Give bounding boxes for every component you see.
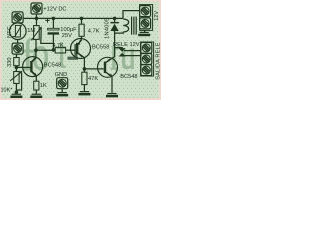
- wire: Q1 collector riser: [32, 50, 36, 61]
- junction node A cap branch: [52, 48, 56, 52]
- wire: NTC bottom to T3: [17, 39, 19, 43]
- wire: 330 to node B: [15, 66, 17, 72]
- pink page border: [0, 0, 161, 1]
- ground (trimmer): [10, 94, 22, 98]
- terminal block 12V (top right): [140, 5, 153, 31]
- svg-text:SALIDA RELE: SALIDA RELE: [156, 42, 161, 80]
- svg-text:NTC: NTC: [7, 26, 13, 38]
- svg-text:1N4005: 1N4005: [104, 17, 110, 39]
- resistor R2 330: [14, 58, 19, 66]
- svg-text:4.7K: 4.7K: [88, 28, 100, 34]
- watermark letter t: [60, 42, 66, 68]
- resistor R4 1K: [34, 81, 39, 90]
- terminal GND: [57, 78, 68, 89]
- wire: pot bottom to node A: [35, 40, 37, 51]
- ground (1K): [30, 94, 42, 98]
- transistor Q1 BC548: [23, 57, 43, 77]
- junction node B Q1 base: [15, 66, 19, 70]
- wire: 12V block lower terminal to ground: [144, 30, 146, 32]
- ground under 12V block: [138, 32, 150, 36]
- wire: node B to Q1 base: [16, 66, 30, 68]
- junction 4.7K branch on rail: [80, 17, 84, 21]
- capacitor C1 100uF 25V: [45, 18, 59, 34]
- trimmer R3 10K*: [10, 71, 22, 84]
- wire: contact stub: [115, 48, 123, 49]
- wire: contact to SALIDA t2: [124, 55, 141, 57]
- wire: trimmer bottom to ground: [15, 84, 17, 94]
- svg-text:4.7K: 4.7K: [53, 43, 64, 49]
- svg-text:BC548: BC548: [120, 74, 137, 80]
- wire: Q3 emitter to ground: [106, 72, 112, 92]
- ground (GND terminal): [56, 92, 68, 96]
- wire: 4.7K v to Q2: [79, 36, 82, 43]
- svg-text:1K: 1K: [40, 83, 47, 89]
- terminal T3 (NTC bottom): [12, 43, 23, 54]
- wire: diode/coil vertical: [114, 18, 116, 22]
- junction capacitor branch on rail: [52, 17, 56, 21]
- transistor Q3 BC548: [98, 57, 118, 77]
- watermark letter r: [112, 46, 120, 70]
- relay coil RL1: [123, 17, 136, 35]
- wire: cap branch: [52, 18, 54, 28]
- svg-text:GND: GND: [55, 72, 68, 78]
- wire: rail riser to top-right: [123, 11, 140, 19]
- svg-text:1M: 1M: [27, 28, 35, 34]
- wire: 47K to ground: [83, 85, 85, 91]
- svg-text:330: 330: [7, 58, 13, 68]
- ground (47K): [78, 91, 90, 95]
- background with grid dots: [0, 0, 161, 100]
- resistor R5 4.7K horizontal: [55, 48, 65, 53]
- svg-text:10K*: 10K*: [1, 88, 14, 94]
- watermark dark letter fragment: [68, 44, 79, 60]
- junction node A pot bottom: [34, 48, 38, 52]
- diode D1 1N4005: [110, 22, 118, 31]
- NTC thermistor R1: [9, 23, 26, 40]
- terminal block SALIDA RELE: [141, 42, 154, 76]
- wire: coil bottom connector: [115, 32, 124, 33]
- junction at +12V terminal on rail: [35, 17, 39, 21]
- junction trimmer wiper strap: [15, 90, 19, 94]
- resistor R6 4.7K vertical: [79, 24, 84, 36]
- watermark letter f: [26, 38, 35, 70]
- svg-text:25V: 25V: [62, 33, 72, 39]
- wire: pot wiper to cap line: [41, 28, 54, 43]
- wire: GND terminal stem: [61, 89, 63, 92]
- wire: 1K to ground: [35, 90, 37, 94]
- relay contacts: [119, 48, 126, 56]
- terminal T1 (NTC top): [12, 12, 23, 23]
- wire: T3 to 330: [15, 54, 17, 57]
- watermark letters: [23, 38, 134, 70]
- svg-text:47K: 47K: [88, 76, 98, 82]
- junction diode branch on rail: [113, 17, 117, 21]
- watermark letter o: [33, 46, 48, 70]
- wire: contact to SALIDA t1: [124, 50, 141, 52]
- svg-text:12V: 12V: [154, 11, 160, 21]
- svg-text:BC558: BC558: [92, 45, 109, 51]
- wire: node A horizontal: [36, 49, 56, 51]
- junction Q2 collector / Q3 base: [83, 67, 87, 71]
- terminal T2 (+12V DC): [31, 3, 42, 14]
- wire: +12V rail: [23, 17, 123, 19]
- wire: Q2 collector down: [79, 53, 85, 72]
- resistor R7 47K: [82, 72, 87, 84]
- svg-text:+12V DC: +12V DC: [43, 7, 66, 13]
- labels: [1, 7, 162, 94]
- ground (Q3 emitter): [106, 93, 118, 97]
- wire: cap bottom to node A: [52, 34, 54, 50]
- wire: T2 +12V stub through rail to pot top: [36, 14, 38, 26]
- wire: trimmer wiper strap: [16, 73, 21, 91]
- wire: rail to 4.7K v: [81, 18, 83, 24]
- wire: Q2 collector to Q3 base: [84, 68, 103, 70]
- transistor Q2 BC558: [71, 39, 91, 59]
- svg-text:100µF: 100µF: [60, 27, 77, 33]
- svg-text:BC548: BC548: [44, 63, 61, 69]
- svg-text:RELE 12V: RELE 12V: [113, 42, 140, 48]
- wire: 4.7K h to Q2 base: [66, 49, 76, 51]
- wire: NTC top stub: [17, 21, 19, 24]
- wire: Q1 emitter down: [32, 72, 37, 81]
- potentiometer P1 1M: [31, 26, 41, 41]
- wire: Q3 collector riser: [106, 48, 114, 63]
- watermark letter u: [122, 49, 134, 70]
